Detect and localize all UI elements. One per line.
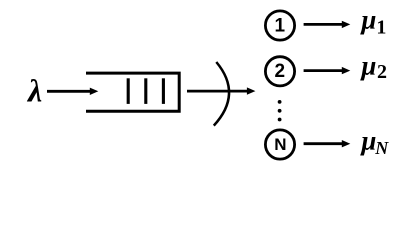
svg-text:1: 1 [275,16,286,37]
svg-text:μ: μ [359,125,376,155]
svg-text:1: 1 [376,17,386,39]
svg-text:λ: λ [26,73,42,109]
svg-text:N: N [374,138,389,158]
svg-text:μ: μ [359,5,376,35]
svg-text:2: 2 [275,61,286,82]
svg-text:μ: μ [359,51,376,81]
svg-text:2: 2 [377,61,387,83]
svg-text:N: N [274,135,286,154]
